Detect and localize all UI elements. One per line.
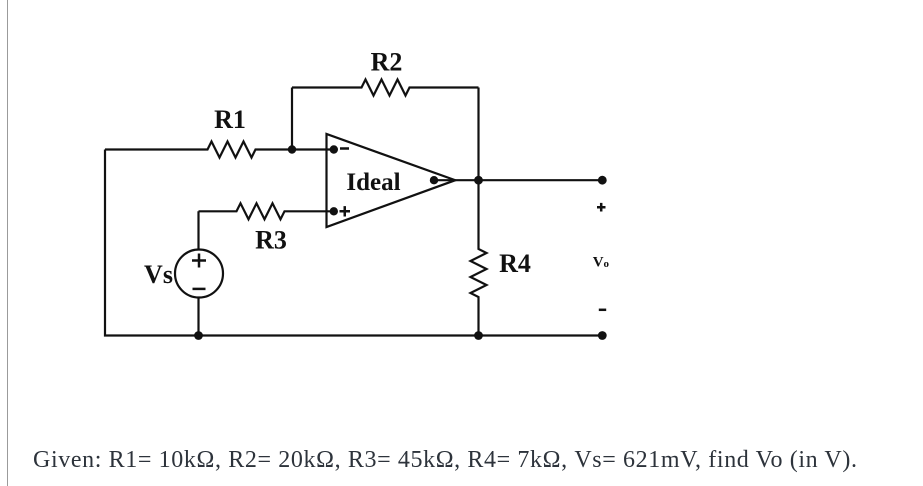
svg-text:R4: R4 bbox=[499, 249, 531, 278]
svg-text:R1: R1 bbox=[214, 105, 246, 134]
svg-text:o: o bbox=[604, 258, 610, 270]
svg-text:V: V bbox=[593, 254, 604, 270]
svg-text:Vs: Vs bbox=[144, 260, 173, 289]
svg-text:R2: R2 bbox=[371, 48, 403, 77]
svg-text:Ideal: Ideal bbox=[346, 169, 400, 196]
svg-text:R3: R3 bbox=[255, 226, 287, 255]
